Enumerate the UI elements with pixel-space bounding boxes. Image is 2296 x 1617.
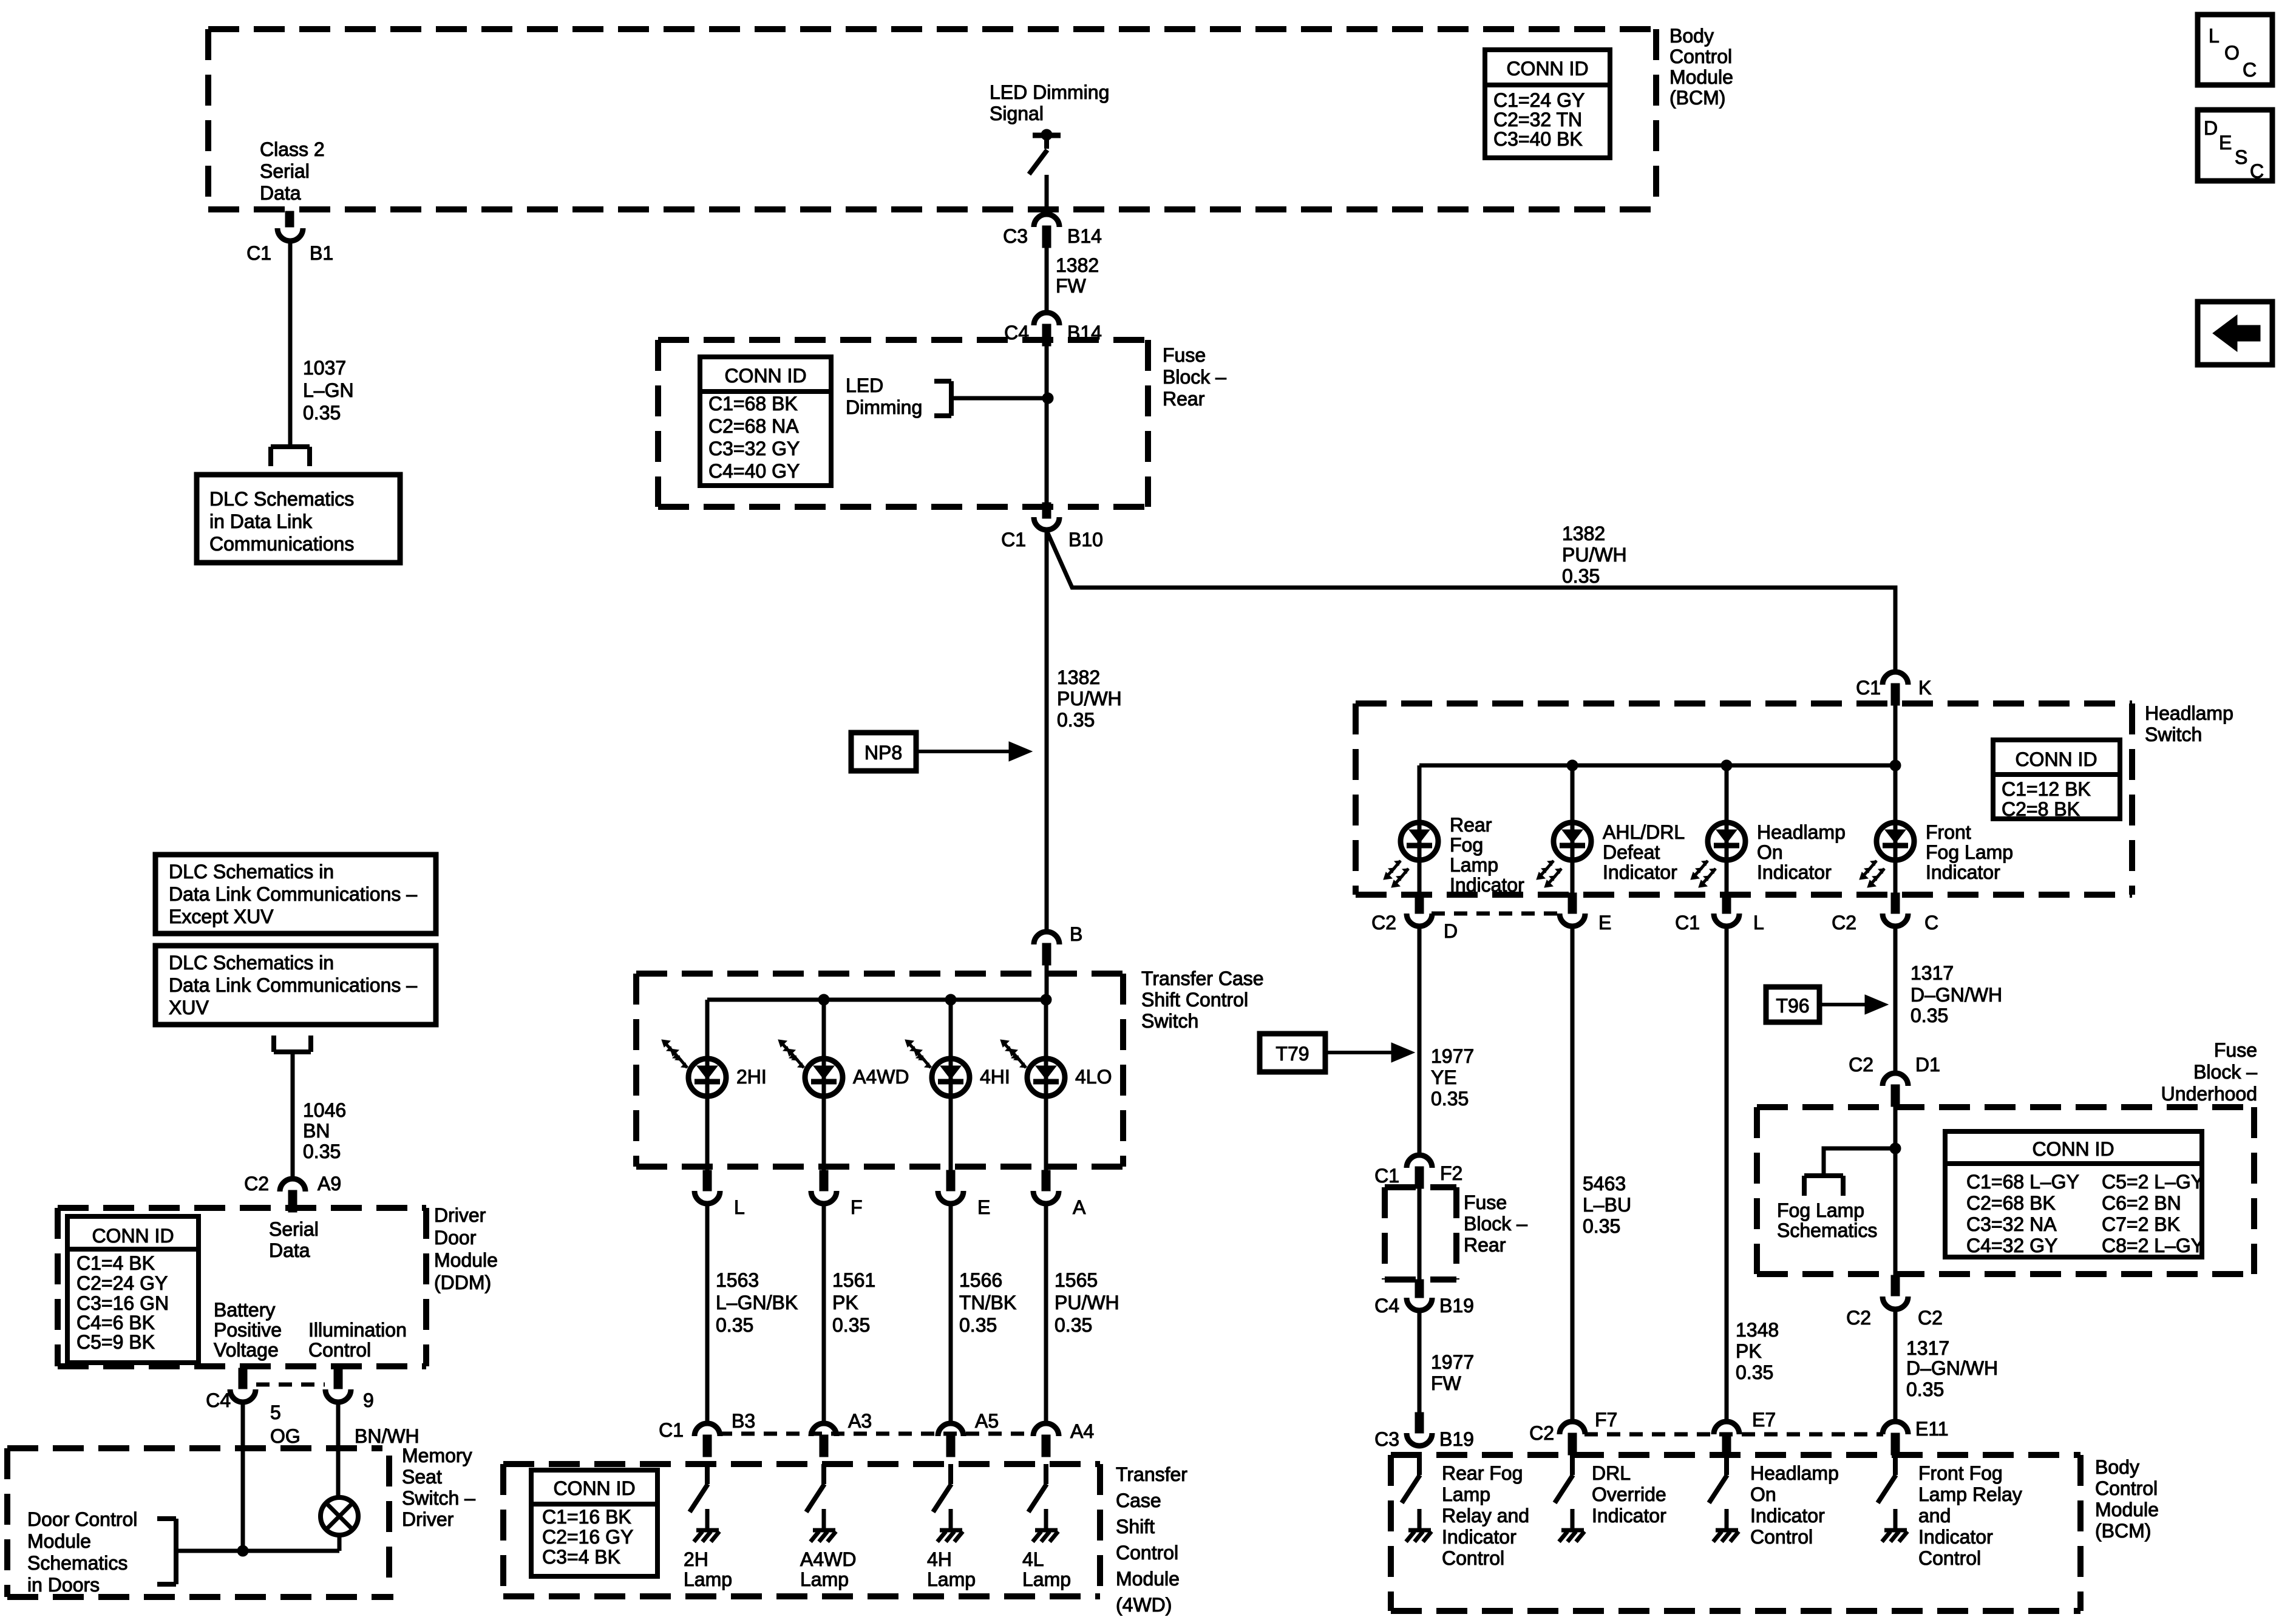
- bracket: door control module schematics: [157, 1519, 176, 1584]
- svg-text:CONN ID: CONN ID: [2015, 748, 2097, 770]
- svg-text:4H: 4H: [927, 1548, 952, 1570]
- svg-text:Lamp: Lamp: [800, 1568, 849, 1590]
- reference box: DLC Schematics in Data Link Communications - XUV: [155, 946, 436, 1025]
- svg-text:C1=12 BK: C1=12 BK: [2002, 778, 2091, 800]
- svg-text:C2: C2: [1918, 1307, 1943, 1329]
- svg-text:Shift: Shift: [1116, 1516, 1155, 1537]
- CONN ID table (4WD module): [531, 1470, 657, 1576]
- svg-text:C1: C1: [659, 1419, 684, 1441]
- connector C3 / B19: [1407, 1412, 1432, 1446]
- svg-text:Lamp: Lamp: [1450, 854, 1498, 876]
- svg-text:Door: Door: [434, 1227, 477, 1249]
- svg-text:C1=68 L–GY: C1=68 L–GY: [1966, 1171, 2079, 1193]
- svg-text:C8=2 L–GY: C8=2 L–GY: [2102, 1235, 2204, 1256]
- svg-text:Module: Module: [1669, 66, 1733, 88]
- svg-text:Lamp: Lamp: [1022, 1568, 1071, 1590]
- label: 4L Lamp: [1022, 1548, 1071, 1590]
- svg-text:C3: C3: [1003, 225, 1028, 247]
- bracket: fog lamp schematics: [1804, 1176, 1843, 1196]
- svg-text:1563: 1563: [716, 1269, 759, 1291]
- svg-text:Module: Module: [27, 1530, 91, 1552]
- connector pin below headlamp switch col 2: [1560, 893, 1585, 926]
- reference tag T79 with arrow: [1260, 1034, 1415, 1072]
- svg-text:A: A: [1073, 1196, 1086, 1218]
- svg-text:C2=24 GY: C2=24 GY: [76, 1272, 168, 1294]
- svg-text:C5=2 L–GY: C5=2 L–GY: [2102, 1171, 2204, 1193]
- svg-text:Control: Control: [1669, 46, 1732, 67]
- connector B (transfer case shift control switch): [1034, 932, 1059, 965]
- wire label: 1561 PK: [832, 1269, 875, 1336]
- svg-text:D: D: [2204, 117, 2218, 139]
- svg-text:K: K: [1918, 677, 1931, 699]
- svg-text:C3=16 GN: C3=16 GN: [76, 1292, 169, 1314]
- connector row dashes (C1): [719, 1432, 1033, 1436]
- svg-text:C1: C1: [1675, 912, 1700, 934]
- svg-text:C3: C3: [1374, 1428, 1399, 1450]
- svg-text:DLC Schematics in: DLC Schematics in: [169, 861, 334, 883]
- svg-text:C2: C2: [1371, 912, 1396, 934]
- svg-text:0.35: 0.35: [303, 402, 341, 424]
- svg-text:C1: C1: [1001, 529, 1026, 551]
- svg-text:1317: 1317: [1906, 1337, 1949, 1359]
- svg-text:Seat: Seat: [402, 1466, 442, 1488]
- svg-text:Override: Override: [1592, 1483, 1666, 1505]
- svg-text:PU/WH: PU/WH: [1562, 544, 1627, 566]
- svg-text:C6=2 BN: C6=2 BN: [2102, 1192, 2181, 1214]
- svg-text:CONN ID: CONN ID: [2032, 1138, 2114, 1160]
- svg-text:C4=40 GY: C4=40 GY: [708, 460, 800, 482]
- wire 1565: [1044, 1203, 1048, 1422]
- svg-text:Headlamp: Headlamp: [1750, 1462, 1839, 1484]
- svg-text:Lamp: Lamp: [1442, 1483, 1490, 1505]
- svg-text:1561: 1561: [832, 1269, 875, 1291]
- svg-text:BN: BN: [303, 1120, 330, 1142]
- svg-text:C2=68 NA: C2=68 NA: [708, 415, 799, 437]
- svg-text:Indicator: Indicator: [1750, 1505, 1825, 1527]
- svg-text:5: 5: [270, 1402, 281, 1423]
- wire 1317 D-GN/WH lower: [1894, 1309, 1898, 1421]
- svg-text:Driver: Driver: [402, 1508, 454, 1530]
- module box: Fuse Block - Underhood: [1757, 1107, 2254, 1274]
- wire: LED dimming signal down to C3: [1045, 175, 1049, 216]
- svg-text:C2: C2: [1846, 1307, 1871, 1329]
- wire 1977 FW: [1418, 1310, 1422, 1414]
- svg-text:C1: C1: [1374, 1165, 1399, 1187]
- connector row dashes: [256, 1383, 325, 1387]
- wire: lamp to junction: [338, 1534, 342, 1551]
- CONN ID table (BCM top): C1=24 GY C2=32 TN C3=40 BK: [1485, 50, 1610, 158]
- svg-text:1382: 1382: [1056, 254, 1099, 276]
- svg-text:0.35: 0.35: [303, 1141, 341, 1162]
- svg-text:Control: Control: [1442, 1547, 1504, 1569]
- svg-text:B19: B19: [1439, 1428, 1474, 1450]
- svg-text:L: L: [1753, 912, 1764, 934]
- label: LED Dimming: [846, 375, 922, 418]
- svg-text:Voltage: Voltage: [214, 1339, 279, 1361]
- svg-text:9: 9: [363, 1389, 374, 1411]
- svg-text:0.35: 0.35: [1055, 1314, 1092, 1336]
- svg-text:0.35: 0.35: [1736, 1361, 1773, 1383]
- label: Rear Fog Lamp Indicator: [1450, 814, 1524, 896]
- junction dot: [1890, 1143, 1901, 1154]
- svg-text:D–GN/WH: D–GN/WH: [1911, 984, 2002, 1006]
- label: Class 2 Serial Data: [260, 138, 325, 204]
- svg-text:A5: A5: [975, 1410, 999, 1432]
- wire: AHL/DRL indicator column: [1571, 765, 1575, 893]
- connector pin below headlamp switch col 4: [1883, 893, 1908, 926]
- svg-text:B: B: [1070, 923, 1082, 945]
- svg-text:FW: FW: [1056, 275, 1087, 297]
- svg-text:C3=32 NA: C3=32 NA: [1966, 1213, 2057, 1235]
- bracket: from DLC schematics: [274, 1036, 311, 1052]
- switch and ground: Rear Fog Lamp Relay and Indicator Control: [1402, 1455, 1432, 1542]
- svg-text:C1=24 GY: C1=24 GY: [1493, 89, 1584, 111]
- svg-text:Control: Control: [1918, 1547, 1981, 1569]
- wire through fuse block: [1418, 1188, 1422, 1282]
- svg-text:Positive: Positive: [214, 1319, 282, 1341]
- svg-text:4L: 4L: [1022, 1548, 1044, 1570]
- module edge: Memory Seat Switch - Driver: [386, 1456, 392, 1579]
- label: Body Control Module (BCM): [1669, 25, 1733, 109]
- wire: 4HI indicator column: [949, 1000, 953, 1171]
- wire label: 1348 PK 0.35: [1736, 1319, 1779, 1383]
- wire 1317 D-GN/WH: [1894, 927, 1898, 1073]
- wire label: 1037 L-GN 0.35: [303, 357, 354, 424]
- connector C2 / C2: [1883, 1275, 1908, 1309]
- svg-text:Block –: Block –: [1464, 1213, 1527, 1235]
- svg-text:F2: F2: [1440, 1162, 1462, 1184]
- svg-text:LED Dimming: LED Dimming: [990, 81, 1109, 103]
- label: Serial Data: [269, 1218, 319, 1261]
- svg-text:0.35: 0.35: [1431, 1088, 1469, 1110]
- svg-text:C7=2 BK: C7=2 BK: [2102, 1213, 2180, 1235]
- connector B3: [695, 1423, 720, 1457]
- svg-text:FW: FW: [1431, 1372, 1462, 1394]
- connector pin E: [938, 1170, 963, 1204]
- svg-text:Indicator: Indicator: [1757, 861, 1832, 883]
- svg-text:C4: C4: [1374, 1295, 1399, 1317]
- svg-text:TN/BK: TN/BK: [959, 1292, 1016, 1314]
- svg-text:Dimming: Dimming: [846, 396, 922, 418]
- svg-text:YE: YE: [1431, 1066, 1457, 1088]
- bracket: to DLC schematics: [271, 447, 310, 466]
- svg-text:Schematics: Schematics: [1777, 1219, 1877, 1241]
- label: Front Fog Lamp Relay and Indicator Control: [1918, 1462, 2022, 1569]
- label: Fuse Block - Rear: [1464, 1192, 1527, 1256]
- label: Battery Positive Voltage: [214, 1299, 282, 1361]
- svg-text:Signal: Signal: [990, 103, 1044, 124]
- connector row dashes (headlamp switch): [1432, 912, 1560, 916]
- svg-text:(DDM): (DDM): [434, 1272, 491, 1293]
- svg-text:E: E: [977, 1196, 990, 1218]
- module box: Driver Door Module (DDM): [58, 1208, 426, 1366]
- label: Rear Fog Lamp Relay and Indicator Control: [1442, 1462, 1529, 1569]
- switch and ground: 4H lamp control: [933, 1464, 963, 1542]
- lamp: memory seat switch illumination: [321, 1497, 358, 1535]
- svg-text:0.35: 0.35: [1906, 1378, 1944, 1400]
- switch and ground: Front Fog Lamp Relay and Indicator Control: [1878, 1455, 1907, 1542]
- svg-text:0.35: 0.35: [959, 1314, 997, 1336]
- label: Driver Door Module (DDM): [434, 1204, 498, 1293]
- LED: Rear Fog Lamp Indicator: [1384, 822, 1438, 887]
- svg-text:Front: Front: [1926, 821, 1971, 843]
- svg-text:Body: Body: [1669, 25, 1714, 47]
- wire inside underhood fuse block: [1894, 1105, 1898, 1276]
- connector pin L: [695, 1170, 720, 1204]
- svg-text:in Data Link: in Data Link: [209, 510, 313, 532]
- svg-text:B3: B3: [732, 1410, 755, 1432]
- svg-text:Memory: Memory: [402, 1445, 472, 1466]
- connector C1 / F2: [1407, 1155, 1432, 1188]
- svg-text:C2=16 GY: C2=16 GY: [542, 1526, 633, 1548]
- module box: Fuse Block - Rear: [658, 340, 1148, 507]
- svg-text:Case: Case: [1116, 1490, 1161, 1511]
- label: 2H Lamp: [684, 1548, 732, 1590]
- svg-text:Indicator: Indicator: [1926, 861, 2000, 883]
- svg-text:2H: 2H: [684, 1548, 708, 1570]
- wire: battery positive voltage down: [241, 1402, 245, 1551]
- connector C2 / D1: [1883, 1073, 1908, 1107]
- svg-text:5463: 5463: [1583, 1173, 1626, 1195]
- svg-text:Headlamp: Headlamp: [1757, 821, 1846, 843]
- svg-text:4LO: 4LO: [1075, 1066, 1112, 1088]
- svg-text:Battery: Battery: [214, 1299, 275, 1321]
- svg-text:Relay and: Relay and: [1442, 1505, 1529, 1527]
- connector C4 / B19: [1407, 1280, 1432, 1310]
- svg-text:Module: Module: [1116, 1568, 1180, 1590]
- svg-text:in Doors: in Doors: [27, 1574, 100, 1596]
- LED indicator A4WD: [778, 1040, 843, 1096]
- svg-text:Serial: Serial: [269, 1218, 319, 1240]
- svg-text:1037: 1037: [303, 357, 346, 379]
- svg-text:PU/WH: PU/WH: [1055, 1292, 1119, 1314]
- svg-text:Switch –: Switch –: [402, 1487, 475, 1509]
- connector A3: [811, 1423, 837, 1457]
- svg-text:F: F: [851, 1196, 863, 1218]
- wire label: 1977 YE 0.35: [1431, 1045, 1474, 1110]
- svg-text:Rear: Rear: [1450, 814, 1492, 836]
- svg-text:Shift Control: Shift Control: [1141, 989, 1248, 1011]
- LED indicator 2HI: [662, 1040, 726, 1096]
- module box: Body Control Module (BCM) top: [208, 29, 1656, 209]
- module box: Transfer Case Shift Control Module (4WD): [503, 1464, 1100, 1596]
- svg-text:L–GN/BK: L–GN/BK: [716, 1292, 798, 1314]
- wire 5463 L-BU: [1571, 927, 1575, 1421]
- svg-text:B10: B10: [1068, 529, 1103, 551]
- CONN ID table (Headlamp Switch): [1993, 740, 2120, 820]
- switch and ground: Headlamp On Indicator Control: [1709, 1455, 1739, 1542]
- svg-text:Body: Body: [2095, 1456, 2139, 1478]
- svg-text:1046: 1046: [303, 1099, 346, 1121]
- wire: Rear indicator column: [1418, 765, 1422, 893]
- svg-text:C4: C4: [206, 1389, 231, 1411]
- svg-text:C: C: [2250, 160, 2264, 182]
- svg-text:Control: Control: [308, 1339, 371, 1361]
- svg-text:Module: Module: [2095, 1499, 2159, 1520]
- svg-text:Lamp: Lamp: [927, 1568, 976, 1590]
- svg-text:Fuse: Fuse: [2214, 1039, 2257, 1061]
- svg-text:S: S: [2235, 146, 2247, 168]
- svg-text:T79: T79: [1275, 1043, 1309, 1065]
- svg-text:C1=68 BK: C1=68 BK: [708, 393, 798, 415]
- svg-text:E: E: [1598, 912, 1611, 934]
- svg-text:C: C: [2243, 59, 2257, 81]
- LED: AHL/DRL Defeat Indicator: [1537, 822, 1591, 887]
- wire label: 1382 FW: [1056, 254, 1099, 297]
- module box: door modules area (dashed): [7, 1448, 393, 1597]
- svg-text:0.35: 0.35: [1562, 565, 1600, 587]
- svg-text:0.35: 0.35: [832, 1314, 870, 1336]
- svg-text:Block –: Block –: [1163, 366, 1226, 388]
- wire: internal bus of transfer case switch: [707, 998, 1047, 1002]
- svg-text:(4WD): (4WD): [1116, 1594, 1172, 1616]
- svg-text:C: C: [1924, 912, 1938, 934]
- label: 4H Lamp: [927, 1548, 976, 1590]
- svg-text:1565: 1565: [1055, 1269, 1098, 1291]
- wire: Front indicator column: [1894, 765, 1898, 893]
- svg-text:D1: D1: [1915, 1054, 1940, 1076]
- svg-text:Driver: Driver: [434, 1204, 486, 1226]
- label: DRL Override Indicator: [1592, 1462, 1666, 1527]
- svg-text:4HI: 4HI: [980, 1066, 1010, 1088]
- svg-text:C2: C2: [1832, 912, 1856, 934]
- svg-text:Indicator: Indicator: [1442, 1526, 1517, 1548]
- svg-text:C2=32 TN: C2=32 TN: [1493, 109, 1582, 131]
- svg-text:C2=68 BK: C2=68 BK: [1966, 1192, 2056, 1214]
- svg-text:On: On: [1757, 841, 1783, 863]
- wire: A4WD indicator column: [822, 1000, 826, 1171]
- svg-text:DLC Schematics: DLC Schematics: [209, 488, 354, 510]
- svg-text:F7: F7: [1595, 1409, 1617, 1431]
- icon: DESC button: [2198, 110, 2272, 182]
- svg-text:C2: C2: [1529, 1422, 1554, 1444]
- svg-text:Schematics: Schematics: [27, 1552, 127, 1574]
- connector row dashes (BCM bottom): [1584, 1432, 1883, 1437]
- CONN ID table (Fuse Block Underhood): [1945, 1131, 2204, 1257]
- connector C2 / F7: [1560, 1422, 1585, 1455]
- svg-text:PU/WH: PU/WH: [1057, 688, 1122, 710]
- connector C3 / B14: [1034, 214, 1059, 248]
- connector A4: [1033, 1423, 1059, 1457]
- svg-text:A4WD: A4WD: [800, 1548, 856, 1570]
- wire: C1/K pin down through switch: [1894, 705, 1898, 893]
- wire: 4LO indicator column: [1044, 1000, 1048, 1171]
- LED: Front Fog Lamp Indicator: [1860, 822, 1914, 887]
- label: Memory Seat Switch - Driver: [402, 1445, 475, 1530]
- svg-text:Rear Fog: Rear Fog: [1442, 1462, 1523, 1484]
- bracket: LED dimming tap: [934, 381, 951, 416]
- svg-text:Headlamp: Headlamp: [2145, 702, 2233, 724]
- svg-text:1977: 1977: [1431, 1045, 1474, 1067]
- wire: branch to headlamp switch (diagonal + horizontal + vertical): [1047, 531, 1895, 674]
- label: Body Control Module (BCM): [2095, 1456, 2159, 1542]
- svg-text:Fog Lamp: Fog Lamp: [1777, 1199, 1864, 1221]
- svg-text:On: On: [1750, 1483, 1776, 1505]
- wire inside fuse block: [1045, 346, 1049, 504]
- svg-text:1566: 1566: [959, 1269, 1002, 1291]
- wire label: 1317 D-GN/WH 0.35: [1911, 962, 2002, 1026]
- svg-text:Fog: Fog: [1450, 834, 1483, 856]
- svg-text:Rear: Rear: [1464, 1234, 1506, 1256]
- svg-text:C3=40 BK: C3=40 BK: [1493, 128, 1583, 150]
- module box: Headlamp Switch: [1356, 703, 2132, 895]
- svg-text:D: D: [1444, 920, 1458, 942]
- svg-text:Indicator: Indicator: [1603, 861, 1677, 883]
- svg-text:Switch: Switch: [1141, 1010, 1198, 1032]
- svg-text:C2: C2: [1849, 1054, 1873, 1076]
- connector C1 / K (headlamp switch): [1883, 672, 1908, 705]
- svg-text:C4=32 GY: C4=32 GY: [1966, 1235, 2057, 1256]
- svg-text:O: O: [2224, 42, 2240, 64]
- svg-text:D–GN/WH: D–GN/WH: [1906, 1357, 1998, 1379]
- label: Transfer Case Shift Control Module (4WD): [1116, 1463, 1187, 1616]
- svg-text:Indicator: Indicator: [1592, 1505, 1666, 1527]
- wire: branch to fog lamp schematics: [1824, 1148, 1895, 1176]
- svg-text:Illumination: Illumination: [308, 1319, 407, 1341]
- wire label: 1317 D-GN/WH 0.35: [1906, 1337, 1998, 1400]
- svg-text:1382: 1382: [1562, 523, 1605, 544]
- svg-text:L: L: [734, 1196, 745, 1218]
- svg-text:L: L: [2209, 25, 2220, 47]
- connector C2 / A9: [280, 1179, 305, 1212]
- wire: 2HI indicator column: [705, 1000, 710, 1171]
- svg-text:C1=4 BK: C1=4 BK: [76, 1252, 155, 1274]
- svg-text:Data Link Communications –: Data Link Communications –: [169, 974, 417, 996]
- svg-text:1317: 1317: [1911, 962, 1954, 984]
- module box: Body Control Module (BCM) bottom: [1391, 1455, 2080, 1611]
- wire label: 5 OG: [270, 1402, 301, 1447]
- svg-text:Underhood: Underhood: [2161, 1083, 2257, 1105]
- CONN ID table (DDM): [67, 1216, 199, 1363]
- svg-text:Rear: Rear: [1163, 388, 1205, 410]
- switch and ground: A4WD lamp control: [806, 1464, 836, 1542]
- svg-text:Lamp Relay: Lamp Relay: [1918, 1483, 2022, 1505]
- label: Fuse Block - Rear: [1163, 344, 1226, 410]
- connector C4 (battery positive voltage): [230, 1368, 256, 1402]
- LED indicator 4HI: [905, 1040, 970, 1096]
- switch and ground: 2H lamp control: [690, 1464, 719, 1542]
- svg-text:Control: Control: [1750, 1526, 1813, 1548]
- svg-text:C4=6 BK: C4=6 BK: [76, 1312, 155, 1334]
- wire: B pin to internal bus: [1045, 965, 1049, 1002]
- svg-text:C3=4 BK: C3=4 BK: [542, 1546, 620, 1568]
- wire label: 1977 FW: [1431, 1351, 1474, 1394]
- label: A4WD Lamp: [800, 1548, 856, 1590]
- wire 1348 PK: [1725, 927, 1729, 1421]
- svg-text:E11: E11: [1915, 1418, 1949, 1440]
- svg-text:CONN ID: CONN ID: [553, 1477, 635, 1499]
- svg-text:L–GN: L–GN: [303, 379, 354, 401]
- svg-text:L–BU: L–BU: [1583, 1194, 1631, 1216]
- svg-text:Block –: Block –: [2193, 1061, 2257, 1083]
- reference box: DLC Schematics in Data Link Communications: [197, 475, 400, 563]
- reference box: DLC Schematics in Data Link Communications - Except XUV: [155, 855, 436, 934]
- svg-text:XUV: XUV: [169, 997, 209, 1019]
- connector C1 / B1: [277, 211, 303, 241]
- svg-text:(BCM): (BCM): [1669, 87, 1725, 109]
- label: Headlamp On Indicator Control: [1750, 1462, 1839, 1548]
- svg-text:1348: 1348: [1736, 1319, 1779, 1341]
- wire label: 1566 TN/BK: [959, 1269, 1016, 1336]
- svg-text:0.35: 0.35: [1911, 1005, 1948, 1026]
- svg-text:A9: A9: [318, 1173, 341, 1195]
- svg-text:Door Control: Door Control: [27, 1508, 137, 1530]
- wire: horizontal to door control module bracket: [176, 1549, 339, 1553]
- svg-text:NP8: NP8: [864, 742, 902, 764]
- module box: Fuse Block - Rear (small): [1385, 1187, 1456, 1280]
- svg-text:Front Fog: Front Fog: [1918, 1462, 2003, 1484]
- connector pin A: [1033, 1170, 1059, 1204]
